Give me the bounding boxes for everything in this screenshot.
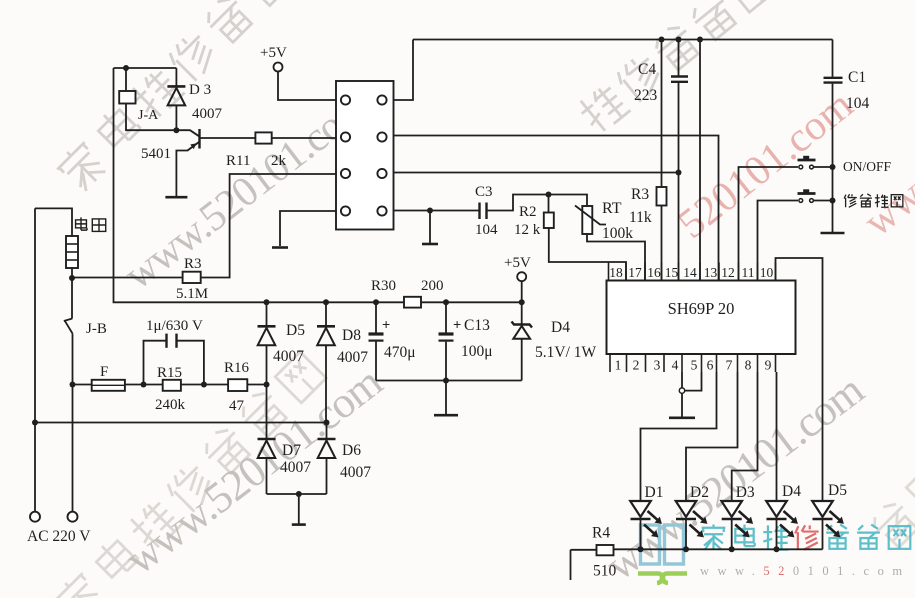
diode D7 bbox=[266, 385, 268, 440]
low rail y=302.3 bbox=[264, 299, 270, 305]
node row4 ground tap bbox=[427, 208, 433, 214]
resistor R4 bbox=[597, 545, 614, 555]
svg-text:C1: C1 bbox=[848, 69, 866, 86]
svg-text:R3: R3 bbox=[631, 186, 649, 203]
resistor R30 bbox=[404, 297, 421, 308]
wire connector row2 to IC pin13 bbox=[394, 136, 719, 281]
zener D4 bbox=[521, 302, 523, 324]
svg-text:R30: R30 bbox=[371, 278, 396, 294]
svg-text:5401: 5401 bbox=[141, 146, 171, 162]
resistor R15 bbox=[163, 380, 181, 391]
node collector junction bbox=[173, 127, 179, 133]
wire D7/D6 cathommon bottom bbox=[267, 493, 327, 495]
thermistor RT bbox=[549, 195, 588, 207]
bottom rail of caps bbox=[376, 380, 522, 382]
wire pin10 route to LED D5 bbox=[776, 258, 823, 501]
svg-text:1μ/630 V: 1μ/630 V bbox=[146, 318, 203, 334]
svg-text:D7: D7 bbox=[282, 442, 301, 459]
svg-text:AC 220 V: AC 220 V bbox=[27, 528, 91, 545]
svg-text:5.1V/ 1W: 5.1V/ 1W bbox=[535, 344, 597, 361]
wire connector row3-left to R3 5.1M bbox=[201, 174, 336, 278]
watermark band: chinese lower-left bbox=[51, 350, 327, 598]
terminal AC neutral bbox=[68, 512, 78, 522]
svg-text:RT: RT bbox=[602, 200, 622, 217]
pin4 to ground via terminal bbox=[681, 372, 683, 388]
svg-text:11: 11 bbox=[742, 265, 755, 280]
wire pin8b to LED D3 bbox=[732, 372, 758, 501]
wire pin14 to top rail bbox=[697, 37, 703, 43]
svg-text:D3: D3 bbox=[736, 484, 755, 501]
svg-text:D5: D5 bbox=[286, 322, 305, 339]
resistor R11 bbox=[200, 137, 256, 139]
IC top pin ticks bbox=[608, 263, 610, 281]
resistor R3 5.1M bbox=[72, 277, 183, 279]
svg-text:4007: 4007 bbox=[273, 348, 304, 365]
diode D5 bbox=[266, 302, 268, 326]
watermark band: www.520101.com upper-left bbox=[116, 83, 378, 299]
svg-text:12 k: 12 k bbox=[514, 222, 541, 238]
svg-text:R4: R4 bbox=[592, 525, 610, 542]
svg-text:D 3: D 3 bbox=[189, 82, 211, 98]
svg-text:J-B: J-B bbox=[86, 321, 107, 337]
switch ON/OFF bbox=[739, 167, 799, 281]
capacitor C13 bbox=[445, 302, 447, 333]
relay J-A coil bbox=[125, 68, 127, 91]
svg-text:R2: R2 bbox=[519, 204, 537, 220]
switch J-B bbox=[71, 278, 73, 319]
wire AC-L top to coil bbox=[35, 208, 72, 236]
fuse line y=384.5 bbox=[73, 384, 92, 386]
svg-text:C13: C13 bbox=[464, 317, 490, 334]
wire AC line 2 to D8/D6 node bbox=[35, 422, 327, 424]
transistor Q1 5401 bbox=[176, 130, 199, 136]
connector block J1 bbox=[336, 81, 394, 230]
svg-text:D4: D4 bbox=[782, 483, 801, 500]
diode D6 bbox=[326, 423, 328, 440]
LED D3 bbox=[721, 501, 742, 517]
svg-text:104: 104 bbox=[846, 95, 870, 112]
node R2 top bbox=[546, 192, 552, 198]
node row3/C4 junction bbox=[676, 170, 682, 176]
LED D4 bbox=[766, 501, 787, 517]
svg-text:5.1M: 5.1M bbox=[176, 286, 208, 302]
svg-text:+: + bbox=[453, 318, 461, 334]
watermark band: pink 520101.com top-right bbox=[670, 82, 862, 248]
wire relay branch top-left y=68 bbox=[114, 67, 177, 69]
svg-text:3: 3 bbox=[654, 358, 661, 373]
svg-text:D5: D5 bbox=[828, 482, 847, 499]
logo chinese text bbox=[702, 525, 726, 550]
wire J-B to AC terminal bbox=[72, 385, 74, 512]
cooker coil winding bbox=[66, 236, 78, 268]
watermark band: www.520101.com lower-left bbox=[116, 357, 391, 584]
watermark band: chinese right-edge fragment bbox=[867, 461, 915, 551]
svg-text:+5V: +5V bbox=[504, 255, 531, 271]
svg-text:F: F bbox=[100, 364, 108, 380]
diode D8 bbox=[325, 302, 327, 326]
svg-text:+5V: +5V bbox=[260, 45, 287, 61]
logo book icon bbox=[641, 525, 684, 564]
svg-text:6: 6 bbox=[707, 358, 714, 373]
svg-text:5: 5 bbox=[691, 358, 698, 373]
ground below row4 bbox=[429, 211, 431, 244]
fuse F bbox=[92, 380, 125, 391]
wire pin8 to LED D2 bbox=[686, 372, 738, 501]
svg-text:16: 16 bbox=[647, 265, 661, 280]
svg-text:www.520101.com: www.520101.com bbox=[597, 365, 873, 590]
watermark band: chinese top-right bbox=[574, 0, 777, 135]
svg-text:8: 8 bbox=[745, 358, 752, 373]
svg-text:D8: D8 bbox=[342, 327, 361, 344]
wire connector row4 / C3 input bbox=[394, 210, 480, 212]
svg-text:47: 47 bbox=[229, 398, 245, 414]
svg-text:11k: 11k bbox=[629, 209, 652, 226]
terminal +5V (mid) bbox=[517, 272, 526, 281]
svg-text:200: 200 bbox=[421, 278, 444, 294]
svg-text:www.520101.com: www.520101.com bbox=[700, 564, 911, 578]
wire pin9 to LED D4 bbox=[776, 372, 778, 501]
resistor R16 bbox=[228, 379, 247, 391]
LED D1 bbox=[630, 501, 651, 517]
watermark band: www.520101.com right-middle bbox=[597, 365, 873, 590]
svg-text:4007: 4007 bbox=[340, 464, 371, 481]
diode D3 flyback bbox=[175, 68, 177, 86]
watermark band: chinese top-left bbox=[53, 0, 329, 195]
LED D5 bbox=[812, 501, 833, 517]
svg-text:470μ: 470μ bbox=[384, 344, 416, 361]
svg-text:ON/OFF: ON/OFF bbox=[843, 159, 892, 174]
capacitor C4 bbox=[676, 37, 682, 43]
diode D5 bbox=[258, 325, 276, 328]
diode D7 bbox=[258, 438, 276, 441]
svg-text:D1: D1 bbox=[645, 484, 664, 501]
svg-text:12: 12 bbox=[721, 265, 735, 280]
svg-text:R11: R11 bbox=[226, 153, 250, 169]
svg-text:SH69P 20: SH69P 20 bbox=[668, 299, 735, 318]
svg-text:100k: 100k bbox=[602, 225, 633, 242]
wire connector row3 to C4 node bbox=[394, 172, 679, 174]
resistor R2 bbox=[548, 195, 550, 213]
wire top supply rail y=39.5 bbox=[413, 39, 833, 41]
svg-text:D2: D2 bbox=[690, 484, 709, 501]
svg-text:1: 1 bbox=[615, 358, 622, 373]
capacitor C1 bbox=[832, 40, 834, 77]
svg-text:13: 13 bbox=[704, 265, 718, 280]
diode D8 bbox=[317, 325, 335, 328]
svg-text:240k: 240k bbox=[155, 397, 186, 413]
capacitor 470u bbox=[375, 302, 377, 333]
svg-text:R16: R16 bbox=[224, 360, 250, 376]
wire left tall drop x=113.5 into low rail bbox=[114, 68, 267, 302]
cooker coil 炉盘 (label) bbox=[76, 217, 88, 230]
node AC1/D5-D7 bbox=[264, 382, 270, 388]
capacitor C3 bbox=[478, 203, 480, 220]
svg-text:4007: 4007 bbox=[192, 106, 223, 122]
svg-text:100μ: 100μ bbox=[461, 343, 493, 360]
svg-text:4007: 4007 bbox=[337, 349, 368, 366]
svg-text:C4: C4 bbox=[638, 61, 656, 78]
svg-text:D6: D6 bbox=[342, 442, 361, 459]
wire pin7 to LED D1 bbox=[641, 372, 717, 501]
svg-text:9: 9 bbox=[765, 358, 772, 373]
terminal AC live bbox=[30, 512, 40, 522]
svg-text:www.5: www.5 bbox=[856, 135, 915, 246]
svg-text:R15: R15 bbox=[157, 365, 182, 381]
wire connector row1 to top rail bbox=[394, 40, 414, 101]
svg-text:510: 510 bbox=[593, 563, 617, 580]
svg-text:J-A: J-A bbox=[138, 108, 159, 123]
svg-text:223: 223 bbox=[634, 87, 658, 104]
svg-text:D4: D4 bbox=[551, 319, 570, 336]
LED D2 bbox=[676, 501, 697, 517]
IC U1 SH69P20 bbox=[607, 281, 796, 355]
svg-text:17: 17 bbox=[628, 265, 642, 280]
svg-text:+: + bbox=[382, 318, 390, 334]
svg-text:15: 15 bbox=[665, 265, 679, 280]
wire connector row4-left to ground bbox=[280, 211, 336, 246]
ground below emitter bbox=[165, 196, 187, 199]
svg-text:4007: 4007 bbox=[280, 459, 311, 476]
svg-text:4: 4 bbox=[672, 358, 679, 373]
svg-text:C3: C3 bbox=[475, 184, 493, 200]
svg-text:104: 104 bbox=[475, 222, 498, 238]
svg-text:R3: R3 bbox=[184, 256, 202, 272]
svg-text:7: 7 bbox=[726, 358, 733, 373]
svg-text:2: 2 bbox=[633, 358, 640, 373]
svg-text:18: 18 bbox=[609, 265, 623, 280]
node relay/diode top bbox=[123, 65, 129, 71]
diode D3 bbox=[167, 85, 185, 88]
LED cathode bus + R4 bbox=[571, 549, 597, 551]
wire AC-L vertical bbox=[34, 208, 36, 511]
svg-text:10: 10 bbox=[760, 265, 774, 280]
node coil bottom bbox=[69, 275, 75, 281]
diode D6 bbox=[318, 438, 336, 441]
resistor R3 11k bbox=[659, 37, 665, 43]
wire +5V drop to connector row1 bbox=[278, 72, 336, 101]
IC bottom pin ticks bbox=[609, 354, 611, 372]
terminal +5V (top) bbox=[274, 63, 283, 72]
svg-text:2k: 2k bbox=[271, 153, 287, 169]
capacitor 1u/630V bridge bbox=[144, 341, 167, 385]
switch function-select bbox=[758, 201, 799, 281]
svg-text:14: 14 bbox=[683, 265, 697, 280]
